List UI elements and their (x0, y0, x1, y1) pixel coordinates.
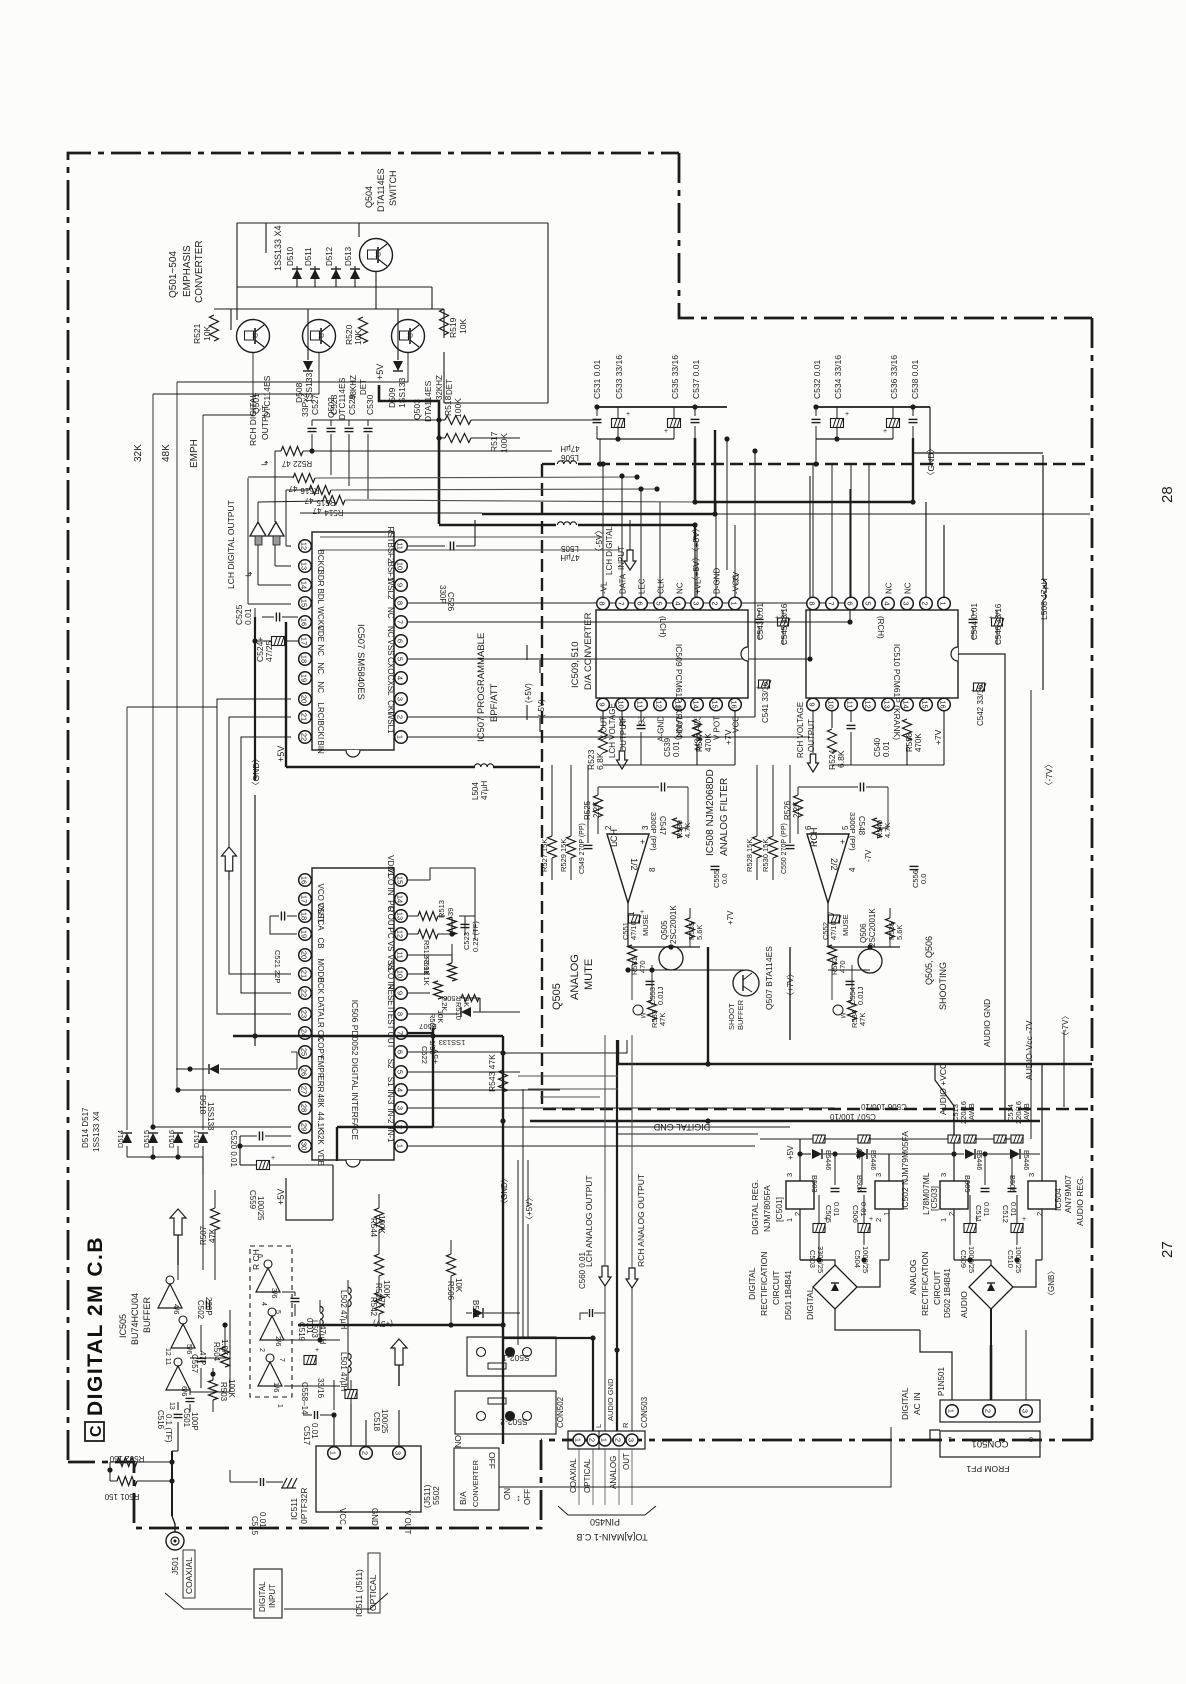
svg-text:18: 18 (300, 655, 309, 663)
svg-text:100P: 100P (190, 1412, 199, 1431)
svg-text:10: 10 (617, 700, 626, 708)
svg-text:CIRCUIT: CIRCUIT (771, 1271, 781, 1305)
diode D514 (122, 1133, 132, 1143)
svg-text:12 11: 12 11 (164, 1348, 171, 1365)
svg-text:ANALOG: ANALOG (609, 1456, 618, 1489)
resistor R522 (281, 447, 303, 456)
wire top network (237, 222, 548, 224)
svg-text:M: M (839, 1013, 845, 1018)
svg-text:330P: 330P (438, 585, 447, 604)
wire IN-1 net (408, 1145, 755, 1147)
switch S502-2 box (455, 1391, 556, 1434)
bridge rectifier D502 (969, 1265, 1013, 1309)
svg-text:R537: R537 (695, 732, 704, 752)
svg-text:BDR: BDR (316, 570, 325, 587)
svg-text:R521: R521 (192, 323, 202, 344)
wire heavy rail y1036 (233, 1035, 503, 1037)
wire C559 hookup (239, 1136, 241, 1165)
connector J501 coaxial (166, 1532, 184, 1550)
svg-text:C502: C502 (196, 1300, 205, 1320)
svg-text:R504: R504 (212, 1342, 221, 1362)
svg-text:R529 15K: R529 15K (559, 839, 568, 872)
svg-text:4: 4 (396, 1088, 405, 1092)
svg-text:+: + (315, 1347, 319, 1354)
wire lch led vertical (257, 502, 259, 522)
svg-text:11: 11 (636, 701, 645, 709)
resistor R523 6.8K (602, 711, 604, 728)
svg-text:MUSE: MUSE (841, 914, 850, 936)
svg-text:8: 8 (396, 1012, 405, 1016)
wire pin26 west (291, 1051, 297, 1053)
svg-text:D509: D509 (387, 387, 397, 408)
wire pin21 BCKI to IC506 BCK (229, 717, 291, 974)
svg-text:C523: C523 (462, 932, 471, 950)
svg-text:–: – (812, 837, 817, 847)
capacitor C537 (694, 407, 696, 416)
svg-text:B504: B504 (855, 1175, 864, 1193)
svg-text:C557: C557 (190, 1354, 199, 1374)
svg-text:+: + (344, 1382, 348, 1389)
svg-text:100K: 100K (499, 433, 509, 453)
svg-text:R: R (621, 1422, 630, 1428)
svg-text:BPF/ATT: BPF/ATT (489, 683, 500, 722)
box B/A CONVERTER (454, 1448, 499, 1510)
svg-text:Q506: Q506 (859, 923, 868, 943)
svg-text:NC: NC (386, 607, 395, 619)
svg-text:CIRCUIT: CIRCUIT (932, 1271, 942, 1305)
svg-text:〈+5V〉: 〈+5V〉 (525, 1194, 534, 1224)
transistor Q501 (237, 320, 270, 353)
wire R audio feed (631, 1035, 633, 1190)
svg-text:4: 4 (883, 601, 892, 605)
svg-text:PC OUT: PC OUT (386, 900, 395, 930)
wire TEST link (408, 1032, 433, 1034)
svg-text:1: 1 (785, 1218, 794, 1222)
svg-text:ANALOG FILTER: ANALOG FILTER (719, 778, 730, 856)
optical LED rch (268, 522, 284, 536)
wire bus verticals right of IC507 (754, 451, 756, 717)
wire -7V corner right (958, 654, 1005, 765)
svg-text:CONVERTER: CONVERTER (194, 240, 205, 303)
svg-text:10: 10 (396, 562, 405, 570)
svg-text:IC502 NJM79M05FA: IC502 NJM79M05FA (900, 1131, 910, 1210)
resistor R515 (309, 486, 331, 495)
svg-text:LCH VOLTAGE: LCH VOLTAGE (608, 703, 617, 758)
svg-text:2: 2 (396, 715, 405, 719)
wire PIN501 border link (930, 1430, 940, 1440)
transistor Q503 (392, 320, 425, 353)
wire bus row y438 (490, 437, 520, 439)
wire pin20 LRCI to IC506 LRCK (217, 699, 291, 1014)
resistor R513 39 (448, 917, 457, 935)
svg-text:R CH: R CH (251, 1249, 261, 1270)
svg-text:1: 1 (574, 1438, 583, 1442)
wire mid cross 2 (518, 1075, 618, 1077)
svg-text:COAXIAL: COAXIAL (184, 1557, 194, 1594)
svg-text:B/A: B/A (458, 1491, 468, 1505)
svg-text:+5V: +5V (375, 364, 385, 380)
svg-text:+: + (664, 428, 668, 435)
wire pin20 branch left (127, 706, 217, 708)
svg-text:3: 3 (1029, 1435, 1033, 1442)
svg-text:D502 1B4B41: D502 1B4B41 (943, 1268, 952, 1318)
svg-text:C560 0.01: C560 0.01 (578, 1252, 587, 1289)
svg-text:7: 7 (827, 601, 836, 605)
wire +5V rail under IC507 (285, 622, 287, 767)
capacitor C559 100/25 electrolytic (257, 1161, 270, 1170)
svg-text:VSS: VSS (386, 639, 395, 655)
svg-text:3: 3 (785, 1173, 794, 1177)
svg-text:R542: R542 (369, 1297, 378, 1317)
resistor R505 100K (375, 1254, 384, 1276)
svg-text:(+5V): (+5V) (524, 683, 533, 703)
svg-text:OPTICAL: OPTICAL (368, 1574, 378, 1611)
capacitor C532 (815, 407, 817, 416)
svg-text:16: 16 (939, 700, 948, 708)
wire RCH fb loop (797, 787, 799, 795)
svg-text:5/6: 5/6 (185, 1344, 194, 1354)
svg-text:8: 8 (598, 601, 607, 605)
svg-text:Q505: Q505 (660, 920, 669, 940)
svg-text:1: 1 (947, 1409, 956, 1413)
svg-text:5: 5 (864, 601, 873, 605)
svg-text:NC: NC (676, 582, 685, 594)
svg-text:33/16: 33/16 (316, 1378, 325, 1399)
svg-text:↳: ↳ (244, 570, 254, 578)
dashed box R CH (250, 1246, 292, 1397)
svg-text:4: 4 (260, 1302, 267, 1306)
title boxed C (85, 1422, 104, 1441)
svg-text:27: 27 (300, 1086, 309, 1094)
capacitor C557 47P (197, 1357, 206, 1359)
svg-text:16: 16 (300, 618, 309, 626)
svg-text:+5V: +5V (276, 746, 286, 762)
capacitor C520 0.01 (258, 1132, 260, 1141)
svg-text:〈GND〉: 〈GND〉 (500, 1174, 509, 1208)
wire DAC top feeds (602, 464, 604, 597)
svg-text:12: 12 (655, 700, 664, 708)
wire LCH out bottom rail (603, 764, 641, 766)
svg-text:AUDIO REG.: AUDIO REG. (1075, 1176, 1085, 1226)
arrow LCH analog out (599, 1266, 611, 1286)
svg-text:IN-1: IN-1 (386, 1127, 395, 1143)
transistor Q507 shoot buffer (733, 970, 759, 996)
wire q section bottom rail (444, 402, 548, 404)
svg-text:+5V: +5V (276, 1189, 286, 1205)
svg-text:14: 14 (692, 700, 701, 708)
svg-text:C512: C512 (1001, 1205, 1010, 1223)
svg-text:DIGITAL 2M C.B: DIGITAL 2M C.B (84, 1236, 107, 1416)
svg-text:22: 22 (300, 733, 309, 741)
resistor R503 100K (209, 1380, 218, 1400)
svg-text:〈-7V〉: 〈-7V〉 (1044, 760, 1054, 790)
svg-text:6/6: 6/6 (180, 1386, 189, 1396)
wire Q504 links (375, 272, 377, 309)
svg-text:C537 0.01: C537 0.01 (691, 360, 701, 399)
svg-text:RECTIFICATION: RECTIFICATION (920, 1251, 930, 1316)
transistor Q506 2SC2001K (858, 949, 882, 973)
svg-text:7: 7 (617, 601, 626, 605)
svg-text:AWB: AWB (967, 1103, 976, 1120)
diode D516 (173, 1133, 183, 1143)
svg-text:100/25: 100/25 (256, 1196, 265, 1221)
inverter IC505 5/6 (171, 1324, 195, 1348)
capacitor C529 (348, 420, 350, 426)
svg-text:C504: C504 (853, 1250, 862, 1268)
wire R518 row (439, 419, 445, 421)
label DIGITAL INPUT box (254, 1569, 282, 1618)
svg-text:12: 12 (300, 542, 309, 550)
svg-text:+: + (271, 1155, 275, 1162)
svg-text:4.7K: 4.7K (883, 823, 892, 838)
svg-text:2: 2 (711, 601, 720, 605)
capacitor C536 electrolytic (887, 419, 900, 428)
svg-text:15: 15 (396, 876, 405, 884)
svg-text:C542 33/16: C542 33/16 (976, 684, 985, 726)
svg-text:2.2K: 2.2K (792, 801, 801, 818)
svg-text:L503: L503 (310, 1320, 319, 1338)
wire VSS net (408, 658, 810, 660)
svg-text:47K: 47K (208, 1228, 217, 1243)
svg-text:C540: C540 (873, 737, 882, 757)
svg-text:B505: B505 (963, 1175, 972, 1193)
wire RCH analog line (631, 1190, 633, 1268)
svg-text:1: 1 (948, 1435, 952, 1442)
svg-text:5: 5 (396, 657, 405, 661)
diode D510 (292, 269, 302, 279)
svg-text:↔: ↔ (512, 1494, 522, 1503)
svg-text:47K: 47K (658, 1013, 667, 1026)
resistor R535 5.6K (686, 918, 695, 938)
svg-text:10: 10 (827, 700, 836, 708)
svg-text:C516: C516 (156, 1410, 165, 1430)
wire base bus y309 (214, 308, 444, 310)
svg-text:R544: R544 (369, 1218, 378, 1238)
wire +7V trunk (707, 947, 709, 1064)
capacitor C552 47/10 (829, 915, 840, 923)
wire dac out to opamp L1 (551, 765, 553, 826)
wire audio vcc corner (617, 1040, 619, 1064)
capacitor C549 270P (584, 844, 593, 846)
capacitor C548 3300P (859, 783, 861, 792)
svg-text:10K: 10K (436, 1010, 445, 1023)
wire +7V vertical (789, 947, 791, 1040)
wire +5V heavy to bus (379, 385, 439, 524)
svg-text:48K: 48K (161, 444, 172, 462)
svg-text:DIGITAL: DIGITAL (747, 1267, 757, 1300)
resistor R509 10K (434, 981, 443, 999)
inverter IC505 6/6 (166, 1366, 190, 1390)
svg-text:SWITCH: SWITCH (388, 171, 398, 207)
svg-text:SHOOTING: SHOOTING (938, 962, 948, 1010)
svg-text:+: + (756, 685, 760, 692)
svg-text:3: 3 (396, 697, 405, 701)
svg-text:CON503: CON503 (640, 1396, 649, 1428)
svg-text:S2: S2 (386, 1059, 395, 1069)
svg-text:1: 1 (396, 1144, 405, 1148)
svg-text:32K: 32K (133, 444, 144, 462)
svg-text:C531 0.01: C531 0.01 (592, 360, 602, 399)
svg-text:18: 18 (300, 912, 309, 920)
heavy +5V rail y1325 (298, 1324, 503, 1326)
wire mid cross 3 (528, 1088, 618, 1090)
svg-text:[C503]: [C503] (929, 1186, 939, 1211)
svg-text:DIGITAL GND: DIGITAL GND (653, 1122, 710, 1132)
inductor L502 (348, 1287, 351, 1306)
svg-text:1/6: 1/6 (272, 1382, 281, 1392)
wire IN-2 net (408, 1126, 790, 1128)
svg-text:C543 0.01: C543 0.01 (756, 603, 765, 640)
wire GND trunk lower (254, 1036, 256, 1046)
capacitor C558 33/16 (304, 1356, 316, 1365)
svg-text:ANALOG: ANALOG (908, 1260, 918, 1295)
svg-text:NC: NC (885, 582, 894, 594)
svg-text:ON: ON (453, 1435, 463, 1448)
svg-text:WSL2: WSL2 (386, 578, 395, 600)
capacitor C504 1000/25 (858, 1224, 870, 1233)
svg-text:CXO: CXO (386, 657, 395, 674)
svg-text:30: 30 (300, 1142, 309, 1150)
svg-text:S502-1: S502-1 (502, 1353, 530, 1363)
svg-text:WSL1: WSL1 (386, 712, 395, 734)
svg-text:R508: R508 (443, 994, 461, 1003)
svg-text:3300P (PP): 3300P (PP) (649, 812, 658, 851)
wire Q502 diode stub (307, 309, 309, 360)
svg-text:15: 15 (300, 599, 309, 607)
svg-text:(-5V): (-5V) (537, 699, 546, 717)
svg-text:Q505: Q505 (551, 983, 563, 1010)
wire c515 stub (229, 1470, 231, 1482)
svg-text:B5446: B5446 (975, 1150, 982, 1170)
resistor R538 470K (903, 719, 912, 741)
wire dac out to opamp R2 (772, 765, 774, 826)
svg-text:OPTICAL: OPTICAL (583, 1458, 592, 1493)
resistor R537 470K (693, 719, 702, 741)
resistor R540 4.7K (873, 818, 882, 838)
svg-text:C: C (88, 1425, 105, 1437)
diode D508 (303, 361, 313, 371)
svg-text:29: 29 (300, 1123, 309, 1131)
svg-text:Q504: Q504 (364, 186, 374, 208)
svg-text:OUT: OUT (622, 1453, 631, 1470)
svg-text:B5446: B5446 (824, 1150, 831, 1170)
svg-text:6: 6 (636, 601, 645, 605)
wire RCH out bottom rail (832, 764, 851, 766)
capacitor C530 (367, 420, 369, 426)
svg-text:(+5V): (+5V) (373, 1319, 393, 1328)
resistor R536 5.6K (886, 918, 895, 938)
svg-text:AUDIO: AUDIO (959, 1291, 969, 1318)
resistor R532 470 (828, 945, 837, 965)
svg-text:14: 14 (300, 581, 309, 589)
wire L audio feed (604, 1035, 606, 1190)
svg-text:0.01: 0.01 (882, 741, 891, 757)
svg-text:47/10: 47/10 (829, 921, 838, 940)
svg-text:B541: B541 (471, 1300, 480, 1319)
svg-text:14: 14 (396, 895, 405, 903)
svg-text:DATA: DATA (619, 573, 628, 594)
resistor R518 (445, 416, 471, 425)
arrow LCH voltage out (617, 751, 628, 769)
svg-text:NC: NC (316, 663, 325, 675)
capacitor C518 100/25 electrolytic (345, 1390, 357, 1399)
svg-text:C522: C522 (420, 1046, 429, 1064)
wire left bus 1 LRCI (126, 707, 128, 1130)
svg-text:D512: D512 (325, 246, 334, 266)
svg-text:OFF: OFF (487, 1452, 497, 1469)
svg-text:10K: 10K (202, 326, 212, 341)
wire pin11 PCVS net (408, 954, 452, 956)
svg-text:15: 15 (711, 700, 720, 708)
inverter IC505 3/6 in box (256, 1268, 280, 1292)
wire R543 span (502, 1053, 504, 1070)
svg-text:470: 470 (838, 960, 847, 973)
resistor R501 150 (117, 1477, 137, 1486)
svg-text:0.01: 0.01 (982, 1202, 991, 1217)
svg-text:13: 13 (300, 562, 309, 570)
wire dac out to opamp R3 (789, 765, 791, 843)
svg-text:6.8K: 6.8K (595, 752, 605, 770)
svg-text:3: 3 (939, 1173, 948, 1177)
wire RESET net (408, 1013, 459, 1015)
svg-text:C533 33/16: C533 33/16 (614, 355, 624, 399)
svg-text:D-GND: D-GND (713, 568, 722, 594)
svg-text:1: 1 (730, 601, 739, 605)
svg-text:Q501~504: Q501~504 (168, 251, 179, 298)
wire mute rails RCH (828, 946, 900, 948)
svg-text:R511 1K: R511 1K (422, 957, 431, 986)
wire pin10 VSS stub (408, 973, 430, 975)
diode B506 (1010, 1149, 1020, 1159)
wire S2 net (408, 1071, 520, 1073)
svg-text:C527: C527 (310, 394, 320, 415)
wire +7V marker line (789, 947, 791, 1040)
svg-text:9: 9 (808, 702, 817, 706)
wire -7V marker line (1063, 1030, 1065, 1107)
svg-text:2: 2 (604, 825, 613, 830)
connector PIN450 (568, 1431, 645, 1449)
diode B503 (812, 1149, 822, 1159)
svg-text:2: 2 (258, 1348, 265, 1352)
wire bus row y514 heavy (300, 512, 482, 514)
svg-text:6: 6 (396, 1050, 405, 1054)
svg-text:CB: CB (316, 938, 325, 949)
svg-text:1: 1 (329, 1451, 338, 1455)
wire IC511 pin feeds (333, 1415, 335, 1446)
resistor R524 6.8K (828, 729, 837, 753)
wire CK1 net (408, 716, 755, 718)
svg-text:13: 13 (168, 1402, 175, 1410)
svg-text:P1N501: P1N501 (937, 1367, 946, 1396)
inductor L501 (348, 1353, 351, 1372)
capacitor C523 0.22 (461, 923, 470, 925)
transistor Q502 (303, 320, 336, 353)
wire CON503 R thick (616, 1350, 618, 1431)
svg-text:↳: ↳ (260, 459, 270, 467)
op IC507 SM5840ES body (312, 532, 394, 750)
svg-text:0.01: 0.01 (243, 608, 253, 625)
resistor R528 15K (753, 836, 762, 858)
svg-text:2: 2 (947, 1212, 956, 1216)
op IC510 PCM61P (RCH) D/A converter (806, 610, 958, 698)
capacitor C515 0.01 (260, 1478, 262, 1486)
svg-text:IC505: IC505 (118, 1314, 128, 1338)
svg-text:22: 22 (300, 989, 309, 997)
svg-text:C510: C510 (1006, 1250, 1015, 1268)
svg-text:2/6: 2/6 (274, 1336, 283, 1346)
svg-text:+7V: +7V (726, 910, 735, 925)
svg-text:2SC2001K: 2SC2001K (669, 905, 678, 944)
